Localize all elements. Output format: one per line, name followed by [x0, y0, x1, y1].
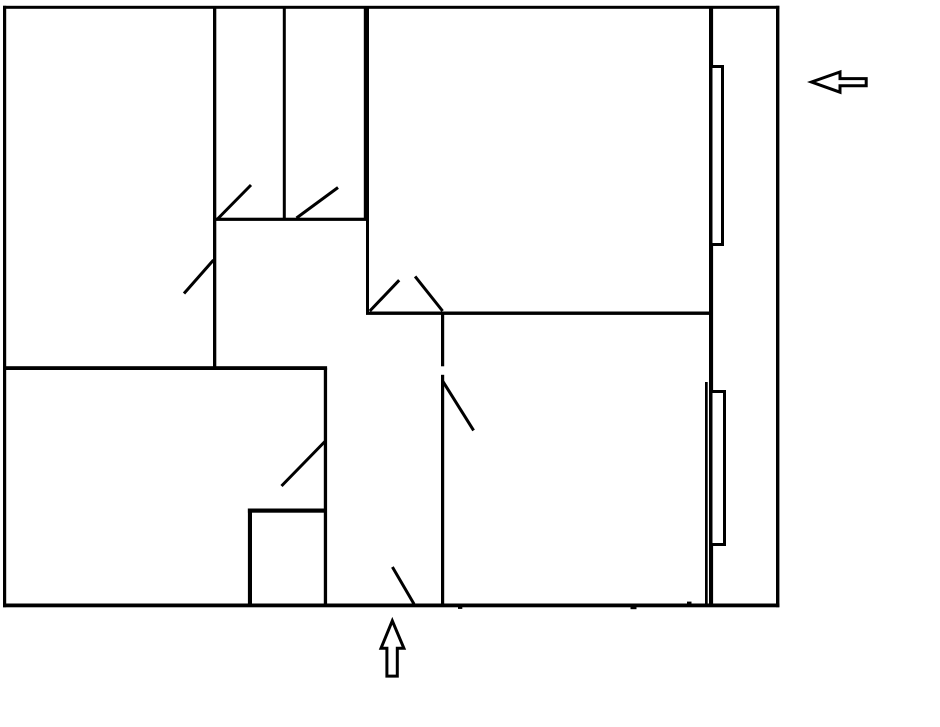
wall B: closet divider vertical x=284 [283, 7, 286, 221]
arrow: bottom entrance (pointing up) [381, 621, 404, 676]
door swing D1: closet 1 [218, 185, 252, 219]
wall: bottom small bump [687, 602, 692, 605]
wall: left exterior [3, 6, 6, 607]
arrow: right side (pointing left) [812, 72, 867, 92]
door swing D6: lower-left room door [282, 442, 325, 487]
wall H: hallway top horizontal y=219 [213, 218, 369, 221]
wall: top exterior [3, 6, 779, 9]
door swing D3: hallway door on wall A [184, 260, 214, 294]
door swing D4: double door left leaf [370, 280, 399, 311]
wall K: small closet top y=510 [248, 509, 327, 513]
wall: bottom tick mark [631, 605, 637, 609]
wall D2: thin twin line left of wall D [705, 382, 708, 605]
wall G: small closet left side [248, 509, 252, 606]
door swing D2: closet 2 [297, 188, 339, 219]
wall I: mid horizontal y=313 [366, 312, 713, 315]
wall A: vertical x=214 from top wall to lower-left room [213, 7, 216, 369]
wall C: thick vertical x=366 top section [364, 7, 369, 218]
wall: bottom exterior [3, 604, 779, 608]
door swing D5: double door right leaf [415, 276, 443, 311]
door swing D7: door on wall E [443, 381, 474, 430]
wall E: vertical x=442 lower segment (below door gap) [441, 375, 444, 605]
wall J: lower-left room top y=368 [3, 366, 327, 370]
wall E: vertical x=442 upper segment [441, 313, 444, 366]
window W1: upper right wall window [711, 67, 723, 245]
wall C2: thin continuation x=367 down to mid wall [366, 218, 369, 314]
window W2: lower right wall window [711, 392, 725, 545]
wall F: vertical x=325 lower-left room right side [324, 368, 327, 605]
wall: bottom small tick near entrance [458, 606, 462, 609]
wall D: long vertical x=711 full height [709, 6, 713, 605]
door swing D8: bottom entrance door [392, 567, 414, 604]
wall: right exterior [776, 6, 779, 607]
